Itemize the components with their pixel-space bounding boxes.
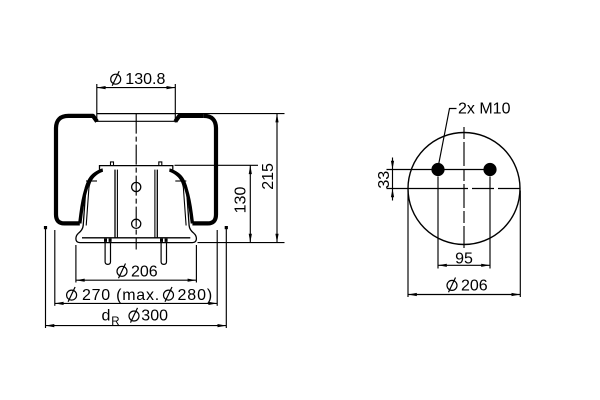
top plate bottom line bbox=[97, 120, 176, 122]
dimension ⌀270 line bbox=[55, 302, 217, 304]
stud boss right bbox=[160, 239, 163, 242]
dimension 130 arrow bottom bbox=[249, 234, 252, 243]
rubber lobe climbing right piston side bbox=[169, 170, 192, 223]
dimension 215 arrow top bbox=[275, 114, 278, 123]
piston plate clamp tab right bbox=[159, 162, 162, 166]
horizontal centerline dashed part bbox=[446, 188, 521, 190]
diameter symbol for right 206 bbox=[447, 278, 457, 293]
dimension dR300 arrow left bbox=[46, 324, 55, 327]
piston top plate bbox=[100, 166, 173, 170]
dimension ⌀206 left line bbox=[76, 279, 196, 281]
dimension dR300 reference dot left bbox=[44, 226, 47, 229]
piston hole upper bbox=[132, 182, 141, 191]
dimension ⌀206 left arrow left bbox=[76, 279, 85, 282]
stud hole left (M10) bbox=[431, 163, 444, 176]
svg-text:300: 300 bbox=[141, 308, 168, 325]
vertical centerline bbox=[463, 127, 465, 248]
dimension 33 line bbox=[392, 158, 394, 201]
dimension ⌀130.8 extension line right bbox=[174, 84, 176, 123]
diameter symbol for 270 bbox=[67, 287, 77, 302]
dimension ⌀130.8 arrow left bbox=[97, 86, 106, 89]
svg-text:2x M10: 2x M10 bbox=[458, 101, 511, 118]
bolt line through studs bbox=[387, 169, 491, 171]
dimension 130 arrow top bbox=[249, 165, 252, 174]
bellows right side wall bbox=[214, 129, 218, 215]
stud left bbox=[105, 243, 110, 265]
diameter symbol for 130.8 bbox=[111, 71, 121, 86]
dimension ⌀270 extension line right bbox=[216, 230, 218, 306]
dimension 215/130 extension line bottom bbox=[198, 242, 285, 244]
horizontal centerline solid part bbox=[387, 188, 447, 190]
svg-text:130.8: 130.8 bbox=[125, 71, 165, 88]
dimension dR300 line bbox=[46, 325, 227, 327]
dimension ⌀130.8 line bbox=[97, 87, 176, 89]
dimension ⌀206 left arrow right bbox=[188, 279, 197, 282]
piston plate clamp tab left bbox=[111, 162, 114, 166]
svg-text:206: 206 bbox=[461, 277, 488, 294]
dimension ⌀270 extension line left bbox=[54, 230, 56, 306]
bellows bottom-left curl bbox=[56, 215, 80, 224]
stud hole right (M10) bbox=[483, 163, 496, 176]
dimension ⌀206 right arrow left bbox=[408, 293, 417, 296]
dimension ⌀270 arrow left bbox=[55, 302, 64, 305]
diameter symbol for 300 bbox=[129, 308, 139, 323]
bellows left side wall bbox=[54, 129, 58, 215]
bellows top-right corner bbox=[204, 116, 216, 129]
dimension ⌀130.8 extension line left bbox=[96, 84, 98, 122]
piston bell slope left outer bbox=[78, 170, 101, 233]
stud right bbox=[161, 243, 166, 265]
dimension ⌀270 arrow right bbox=[208, 302, 217, 305]
label 2x M10 leader bbox=[439, 109, 457, 164]
dimension dR300 extension line right bbox=[225, 228, 227, 328]
dimension 130 line bbox=[249, 165, 251, 242]
base plate top line bbox=[82, 237, 190, 239]
piston column left wall bbox=[114, 170, 116, 238]
diameter symbol for left 206 bbox=[117, 264, 127, 279]
piston bell slope right outer bbox=[172, 170, 195, 233]
bellows top-left corner bbox=[56, 116, 69, 129]
svg-text:d: d bbox=[102, 308, 111, 325]
dimension 215 line bbox=[276, 114, 278, 243]
piston shoulder ledge left bbox=[86, 180, 97, 182]
dimension ⌀130.8 arrow right bbox=[167, 86, 176, 89]
svg-text:33: 33 bbox=[376, 171, 393, 189]
svg-text:130: 130 bbox=[233, 187, 250, 214]
svg-text:R: R bbox=[111, 316, 119, 328]
piston shoulder ledge right bbox=[175, 180, 186, 182]
dimension dR300 reference dot right bbox=[225, 226, 228, 229]
bellows top rubber band right bbox=[175, 116, 204, 122]
piston column right wall bbox=[156, 170, 158, 238]
dimension 95 arrow left bbox=[438, 264, 447, 267]
svg-text:280): 280) bbox=[178, 287, 214, 304]
svg-text:95: 95 bbox=[455, 250, 473, 267]
dimension 33 arrow top bbox=[391, 161, 394, 170]
dimension 130 extension line top bbox=[175, 164, 259, 166]
dimension ⌀206 right extension line right bbox=[519, 191, 521, 298]
base plate bbox=[76, 234, 196, 243]
dimension ⌀206 right extension line left bbox=[407, 191, 409, 298]
piston bell slope right inner bbox=[170, 171, 186, 225]
vertical centerline of side view bbox=[135, 114, 137, 250]
stud extension line right bbox=[489, 177, 491, 269]
dimension 95 arrow right bbox=[481, 264, 490, 267]
piston bell slope left inner bbox=[86, 171, 102, 225]
dimension 33 arrow bottom bbox=[391, 189, 394, 198]
piston hole lower bbox=[132, 219, 141, 228]
bellows bottom-right curl bbox=[192, 215, 216, 224]
stud boss left bbox=[104, 239, 107, 242]
dimension ⌀206 left extension line right bbox=[195, 245, 197, 283]
bellows top rubber band left bbox=[69, 116, 98, 122]
svg-text:206: 206 bbox=[131, 263, 158, 280]
stud extension line left bbox=[437, 177, 439, 269]
piston circle bbox=[408, 133, 520, 245]
dimension ⌀206 right line bbox=[408, 294, 520, 296]
dimension dR300 extension line left bbox=[45, 228, 47, 328]
dimension 215 arrow bottom bbox=[275, 234, 278, 243]
dimension ⌀206 right arrow right bbox=[512, 293, 521, 296]
rubber lobe climbing left piston side bbox=[80, 170, 103, 223]
dimension 215 extension line top bbox=[176, 113, 285, 115]
svg-text:215: 215 bbox=[260, 163, 277, 190]
diameter symbol for 280 bbox=[164, 287, 174, 302]
dimension 95 line bbox=[438, 264, 490, 266]
piston column left inner wall bbox=[116, 170, 118, 238]
piston column right inner wall bbox=[154, 170, 156, 238]
top plate top line bbox=[97, 113, 176, 115]
dimension dR300 arrow right bbox=[218, 324, 227, 327]
dimension ⌀206 left extension line left bbox=[75, 245, 77, 283]
svg-text:270 (max.: 270 (max. bbox=[82, 287, 160, 304]
